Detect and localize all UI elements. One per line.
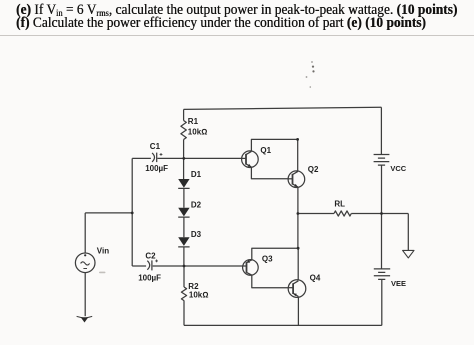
svg-text:100µF: 100µF <box>138 273 161 282</box>
svg-text:Vin: Vin <box>97 246 109 255</box>
svg-text:D1: D1 <box>191 170 202 179</box>
svg-text:10kΩ: 10kΩ <box>188 127 208 136</box>
svg-text:Q4: Q4 <box>310 273 321 282</box>
svg-text:Q2: Q2 <box>308 165 319 174</box>
svg-text:RL: RL <box>334 199 345 208</box>
svg-text:C2: C2 <box>145 251 156 260</box>
svg-text:Q1: Q1 <box>260 146 271 155</box>
svg-text:VCC: VCC <box>390 164 406 173</box>
svg-text:D2: D2 <box>191 201 202 210</box>
svg-text:10kΩ: 10kΩ <box>189 291 209 300</box>
svg-text:Q3: Q3 <box>262 255 273 264</box>
svg-text:D3: D3 <box>191 230 202 239</box>
svg-text:R1: R1 <box>188 117 199 126</box>
svg-text:C1: C1 <box>150 142 161 151</box>
svg-text:VEE: VEE <box>391 279 406 288</box>
svg-text:100µF: 100µF <box>145 164 168 173</box>
